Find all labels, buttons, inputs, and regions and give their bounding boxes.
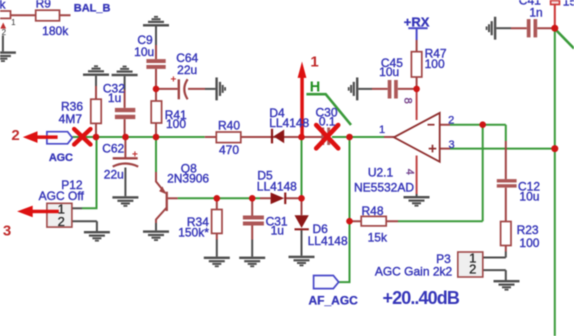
svg-text:2: 2 xyxy=(2,28,7,37)
svg-text:180k: 180k xyxy=(42,24,69,38)
svg-text:+: + xyxy=(132,150,138,161)
svg-text:BAL_B: BAL_B xyxy=(74,2,111,14)
svg-text:1u: 1u xyxy=(271,223,284,237)
svg-text:+: + xyxy=(171,75,177,86)
svg-text:1n: 1n xyxy=(529,6,542,20)
svg-text:LL4148: LL4148 xyxy=(308,234,348,248)
svg-text:NE5532AD: NE5532AD xyxy=(354,180,414,194)
svg-text:R9: R9 xyxy=(36,0,52,10)
svg-text:2: 2 xyxy=(469,262,476,277)
svg-text:2N3906: 2N3906 xyxy=(167,172,209,186)
svg-text:3: 3 xyxy=(3,223,11,240)
svg-text:1: 1 xyxy=(11,18,16,27)
svg-text:2: 2 xyxy=(11,127,19,144)
svg-text:1: 1 xyxy=(379,124,385,136)
svg-text:LL4148: LL4148 xyxy=(269,116,309,130)
svg-text:AGC Gain 2k2: AGC Gain 2k2 xyxy=(375,265,453,279)
svg-text:k: k xyxy=(0,0,7,12)
svg-text:4M7: 4M7 xyxy=(59,112,83,126)
svg-text:1: 1 xyxy=(310,54,318,71)
svg-text:+RX: +RX xyxy=(404,14,430,29)
svg-text:C62: C62 xyxy=(102,142,124,156)
svg-text:0.1: 0.1 xyxy=(319,115,336,129)
svg-text:15k: 15k xyxy=(368,230,388,244)
svg-text:10u: 10u xyxy=(519,189,539,203)
svg-text:22u: 22u xyxy=(177,63,197,77)
svg-text:2: 2 xyxy=(448,115,454,127)
svg-text:H: H xyxy=(310,79,320,95)
svg-text:1u: 1u xyxy=(108,91,121,105)
svg-text:100: 100 xyxy=(166,117,186,131)
svg-text:470: 470 xyxy=(219,143,239,157)
svg-text:4: 4 xyxy=(404,169,416,175)
svg-text:10u: 10u xyxy=(134,45,154,59)
svg-text:15: 15 xyxy=(563,0,574,9)
svg-text:2: 2 xyxy=(58,214,65,229)
svg-text:150k*: 150k* xyxy=(178,225,209,239)
svg-text:LL4148: LL4148 xyxy=(257,180,297,194)
svg-text:8: 8 xyxy=(402,98,414,104)
svg-text:3: 3 xyxy=(448,139,454,151)
svg-text:R40: R40 xyxy=(218,118,240,132)
svg-text:100: 100 xyxy=(519,236,539,250)
svg-text:100: 100 xyxy=(425,57,445,71)
svg-text:10u: 10u xyxy=(379,65,399,79)
svg-text:R48: R48 xyxy=(361,204,383,218)
svg-text:+20..40dB: +20..40dB xyxy=(383,288,460,308)
svg-text:22u: 22u xyxy=(104,168,124,182)
svg-text:AGC: AGC xyxy=(49,152,73,164)
svg-text:AF_AGC: AF_AGC xyxy=(309,294,359,308)
svg-text:U2.1: U2.1 xyxy=(368,166,394,180)
